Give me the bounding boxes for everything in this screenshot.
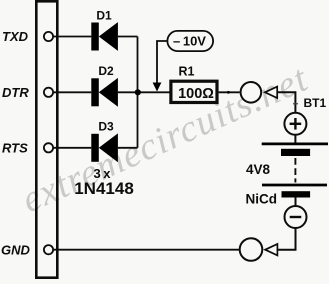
battery cell 1 plate long: [262, 143, 328, 146]
pin GND: [44, 245, 53, 254]
wire D3 to bus: [118, 147, 138, 149]
wire -10V flag to node: [157, 41, 167, 83]
svg-text:DTR: DTR: [2, 85, 29, 100]
wire plus terminal to cell 1: [294, 135, 296, 143]
svg-text:R1: R1: [179, 65, 195, 79]
svg-text:NiCd: NiCd: [246, 192, 278, 207]
battery cell 2 plate thick: [282, 191, 311, 197]
wire cell 2 to minus terminal: [295, 197, 297, 207]
svg-text:BT1: BT1: [304, 96, 327, 110]
pin RTS: [44, 143, 53, 152]
wire DTR pin to D2: [53, 91, 91, 93]
svg-text:RTS: RTS: [2, 141, 28, 156]
wire RTS pin to D3: [53, 147, 91, 149]
wire TXD pin to D1: [53, 36, 91, 38]
svg-text:TXD: TXD: [2, 29, 29, 44]
wire minus terminal down and left: [277, 228, 295, 250]
pin TXD: [44, 32, 53, 41]
wire GND pin to terminal: [53, 249, 240, 251]
diode D2: [91, 78, 118, 107]
node junction dot: [135, 89, 141, 95]
arrowhead -10V: [153, 83, 162, 92]
pin DTR: [44, 88, 53, 97]
arrow to terminal gnd: [265, 244, 277, 255]
wire arrow to BT1 plus: [277, 92, 295, 113]
svg-text:D1: D1: [96, 8, 112, 22]
connector J1: [36, 1, 57, 277]
svg-text:D2: D2: [98, 64, 114, 78]
junction dot small: [227, 91, 230, 94]
svg-text:1N4148: 1N4148: [74, 179, 134, 198]
wire D2 to node: [118, 91, 170, 93]
terminal node plus output: [241, 82, 262, 103]
battery cell 2 plate long: [262, 184, 327, 187]
diode D1: [91, 22, 118, 51]
svg-text:– 10V: – 10V: [173, 33, 206, 48]
diode D3: [91, 133, 118, 162]
dashed cell link: [294, 158, 296, 183]
wire R1 to output terminal: [219, 91, 240, 93]
resistor R1: [171, 81, 217, 102]
svg-text:GND: GND: [1, 242, 31, 257]
label 3x 1N4148: [74, 166, 134, 198]
battery BT1 minus terminal: [285, 206, 307, 228]
wire tick: [293, 103, 298, 105]
svg-text:100Ω: 100Ω: [178, 86, 214, 102]
net flag -10V: [167, 31, 213, 51]
wire D1 to bus: [118, 36, 138, 38]
svg-text:D3: D3: [98, 119, 114, 133]
battery cell 1 plate thick: [281, 149, 310, 156]
wire bus vertical: [137, 37, 139, 148]
terminal node gnd output: [240, 238, 263, 261]
svg-text:4V8: 4V8: [246, 162, 271, 177]
battery BT1 plus terminal: [284, 113, 306, 135]
arrow to terminal plus: [265, 87, 277, 98]
